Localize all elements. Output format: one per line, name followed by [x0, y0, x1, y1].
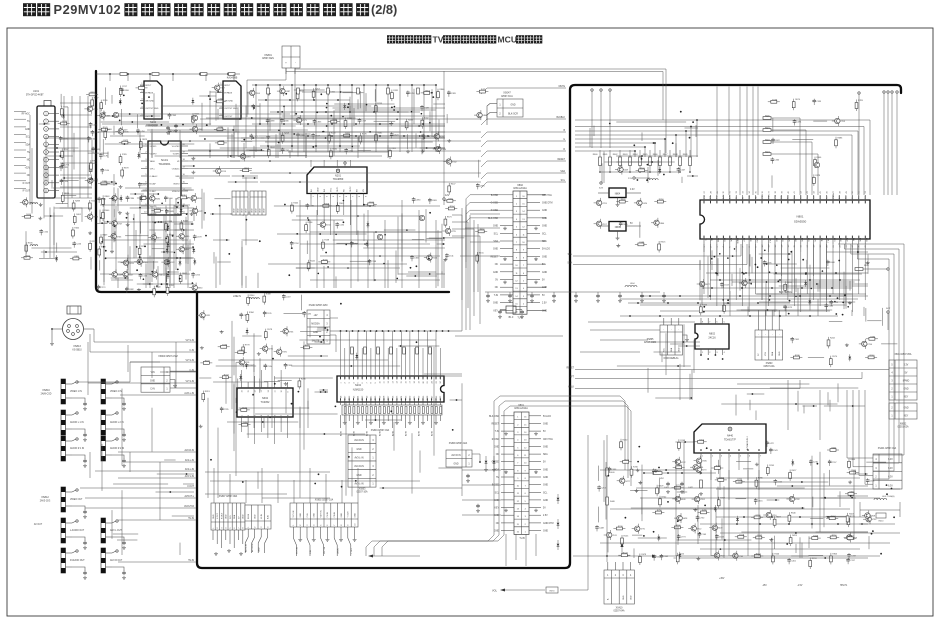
transistor	[693, 465, 698, 470]
wire	[264, 381, 280, 383]
wire	[50, 197, 92, 199]
svg-text:L401 TU-B(H): L401 TU-B(H)	[882, 496, 895, 498]
svg-text:GND DTM: GND DTM	[542, 203, 553, 205]
wire RESET long	[575, 369, 889, 371]
wire	[336, 242, 357, 244]
svg-text:SCL: SCL	[561, 180, 566, 182]
resistor	[689, 157, 692, 166]
wire	[115, 206, 117, 276]
wire	[773, 310, 775, 316]
wire	[44, 137, 91, 139]
wire	[350, 260, 370, 262]
wire AV2-L-IN	[125, 461, 196, 463]
wire	[259, 358, 261, 390]
resistor	[424, 92, 430, 95]
wire	[159, 462, 161, 520]
capacitor	[139, 182, 141, 184]
wire	[683, 442, 685, 494]
wire	[60, 162, 92, 164]
wire	[233, 382, 235, 451]
wire	[47, 155, 73, 157]
transistor V202	[419, 215, 424, 220]
svg-text:VI/Y1-IN: VI/Y1-IN	[185, 381, 194, 383]
wire	[60, 207, 83, 209]
resistor	[336, 205, 339, 211]
wire	[415, 133, 417, 148]
diode	[62, 115, 65, 117]
wire	[277, 144, 279, 158]
wire MCU pin down	[716, 244, 718, 276]
svg-text:V1/Y-IN: V1/Y-IN	[297, 547, 299, 554]
resistor row bottom rail	[600, 171, 680, 173]
transistor	[179, 234, 184, 239]
svg-text:VI-OSS: VI-OSS	[150, 214, 157, 216]
capacitor	[60, 179, 62, 181]
svg-text:GND: GND	[494, 515, 499, 517]
wire	[747, 306, 749, 316]
svg-text:GND: GND	[542, 256, 547, 258]
section boundary bold line MCU AV block	[197, 85, 901, 568]
wire	[810, 518, 823, 520]
wire	[851, 310, 853, 316]
wire loop	[865, 390, 873, 484]
transistor	[296, 117, 301, 122]
wire MCU top pin	[739, 87, 741, 196]
wire MCU top pin	[752, 87, 754, 196]
resistor	[246, 314, 249, 320]
wire	[792, 138, 813, 140]
wire	[649, 341, 700, 343]
wire	[209, 143, 211, 158]
capacitor	[609, 467, 611, 469]
wire	[235, 362, 237, 403]
wire bus loop right	[845, 244, 900, 463]
wire	[151, 129, 153, 158]
wire	[54, 207, 92, 209]
ground	[126, 223, 130, 226]
wire	[229, 474, 231, 503]
wire MCU top pin	[746, 87, 748, 196]
wire	[335, 276, 337, 288]
svg-text:2.5V: 2.5V	[628, 178, 633, 180]
wire corner	[452, 229, 474, 316]
svg-text:AV2-L-IN: AV2-L-IN	[185, 468, 194, 471]
resistor	[827, 340, 830, 346]
svg-text:HBLK: HBLK	[568, 387, 574, 389]
wire	[156, 257, 193, 259]
wire	[477, 224, 479, 292]
wire	[309, 220, 311, 268]
svg-text:GND: GND	[542, 218, 547, 220]
diode	[140, 197, 143, 199]
wire	[470, 213, 500, 215]
wire	[358, 150, 371, 152]
wire pin	[719, 458, 721, 490]
more dots	[326, 103, 328, 105]
wire	[139, 235, 149, 237]
wire	[797, 391, 799, 412]
wire	[867, 254, 869, 273]
wire top long run B	[286, 72, 663, 121]
wire	[691, 370, 693, 400]
wire	[636, 487, 805, 489]
svg-text:2AV3-CK3: 2AV3-CK3	[40, 499, 51, 502]
wire	[129, 246, 131, 274]
transistor	[100, 113, 105, 118]
wire AUX-L-IN	[120, 394, 196, 396]
wire	[127, 74, 129, 81]
wire	[406, 275, 437, 277]
svg-text:SCL: SCL	[543, 492, 548, 494]
wire	[179, 543, 181, 555]
svg-text:AV2-V-IN: AV2-V-IN	[185, 475, 195, 478]
diode	[557, 544, 560, 546]
svg-text:GND: GND	[256, 208, 258, 213]
wire MCU pin down	[819, 244, 821, 288]
wire	[756, 293, 852, 295]
svg-text:B1.0: B1.0	[509, 317, 514, 319]
capacitor	[766, 441, 768, 443]
svg-text:24C16: 24C16	[708, 337, 716, 340]
resistor	[89, 93, 95, 96]
wire	[153, 222, 155, 259]
transistor	[283, 329, 288, 334]
wire	[99, 260, 101, 270]
wire	[333, 220, 335, 288]
ground	[200, 346, 204, 349]
inductor L401 network	[874, 498, 887, 500]
resistor	[217, 100, 223, 103]
capacitor	[90, 177, 92, 179]
wire	[729, 244, 731, 294]
wire right bus vertical	[461, 208, 463, 331]
wire	[795, 544, 797, 553]
wire	[213, 252, 215, 263]
RCA jack AUX R OUT	[101, 548, 106, 573]
wire BLKBLK	[481, 119, 566, 125]
wire	[60, 186, 92, 188]
wire	[819, 244, 821, 306]
wire	[152, 248, 165, 250]
svg-text:INPUT: INPUT	[145, 85, 152, 87]
wire	[111, 279, 133, 281]
wire	[172, 74, 174, 81]
wire	[288, 355, 328, 357]
top rail dots	[109, 73, 111, 75]
wire	[839, 491, 841, 507]
svg-text:AV-IN: AV-IN	[352, 430, 355, 436]
svg-text:GND: GND	[357, 449, 362, 451]
capacitor	[813, 99, 815, 101]
svg-text:GND: GND	[542, 226, 547, 228]
RCA jack AUDIO L 2 IN	[101, 410, 106, 435]
wire	[299, 200, 301, 288]
resistor	[447, 199, 453, 202]
svg-text:VI-OIF1: VI-OIF1	[150, 146, 158, 148]
wire	[53, 187, 92, 189]
resistor	[629, 157, 632, 166]
wire	[121, 389, 123, 466]
ground	[696, 557, 700, 560]
wire MCU pin down	[793, 244, 795, 300]
wire	[207, 398, 209, 498]
wire	[768, 244, 770, 306]
capacitor	[246, 363, 248, 365]
resistor	[241, 409, 247, 412]
wire	[255, 413, 338, 415]
resistor	[387, 88, 390, 94]
wire	[166, 271, 179, 273]
resistor	[139, 87, 145, 90]
wire	[227, 421, 298, 423]
wire	[294, 89, 325, 91]
wire	[161, 105, 371, 107]
wire	[826, 515, 848, 517]
RCA jack VIDEO 1 IN	[61, 379, 66, 404]
capacitor	[825, 303, 827, 305]
wire	[597, 507, 599, 523]
wire	[866, 461, 886, 463]
ground	[848, 481, 852, 484]
section heading mainboard TV audio MCU circuit	[387, 35, 395, 43]
wire	[252, 123, 390, 125]
ground	[220, 330, 224, 333]
wire	[817, 283, 819, 292]
wire	[241, 137, 445, 139]
capacitor	[90, 122, 92, 124]
transistor	[654, 220, 659, 225]
ground	[693, 508, 697, 511]
wire	[173, 205, 175, 288]
svg-text:5V-LDO: 5V-LDO	[543, 416, 551, 418]
wire	[241, 239, 258, 241]
svg-text:Y OUT: Y OUT	[348, 511, 350, 518]
resistor	[830, 556, 833, 562]
svg-text:02507-04A: 02507-04A	[763, 365, 775, 368]
wire	[61, 195, 76, 197]
svg-text:NJM1150: NJM1150	[353, 389, 364, 392]
resistor	[809, 561, 812, 567]
wire	[91, 140, 93, 172]
EEPROM N802 24C16	[695, 318, 729, 360]
wire MCU pin down	[722, 244, 724, 288]
wire bus horizontal	[575, 142, 655, 144]
svg-text:5TH-DFCD-4KBT: 5TH-DFCD-4KBT	[26, 95, 44, 97]
diode	[355, 355, 358, 357]
capacitor	[312, 133, 314, 135]
svg-text:GND: GND	[779, 351, 781, 356]
svg-text:GND: GND	[630, 595, 632, 600]
wire	[357, 468, 359, 503]
svg-text:GND: GND	[264, 208, 266, 213]
wire	[373, 555, 420, 557]
resistor	[793, 356, 799, 359]
wire	[616, 155, 698, 157]
svg-text:XS804 02507-03A: XS804 02507-03A	[371, 429, 390, 432]
wire	[317, 199, 319, 216]
svg-text:PSEN: PSEN	[736, 238, 738, 244]
resistor	[263, 296, 266, 302]
wire R	[481, 151, 566, 157]
transistor	[835, 118, 840, 123]
wire	[37, 197, 52, 199]
wire	[601, 163, 603, 183]
transistor	[866, 517, 871, 522]
wire	[780, 244, 782, 294]
wire	[845, 286, 847, 309]
svg-text:XS810: XS810	[42, 389, 50, 392]
wire	[737, 309, 778, 311]
wire	[253, 146, 255, 158]
svg-text:SDA: SDA	[543, 453, 548, 456]
resistor	[812, 537, 818, 540]
wire	[175, 342, 177, 388]
section boundary bold line video block	[96, 71, 449, 292]
capacitor	[166, 209, 168, 211]
wire	[380, 487, 462, 489]
wire	[658, 479, 660, 494]
resistor	[72, 203, 75, 209]
wire	[152, 221, 167, 223]
wire	[102, 139, 104, 155]
wire	[277, 474, 279, 503]
wire	[505, 534, 507, 566]
wire	[60, 138, 92, 140]
wire	[309, 319, 311, 338]
diode	[343, 105, 346, 107]
wire	[747, 470, 749, 556]
svg-text:GND: GND	[454, 463, 459, 465]
resistor	[24, 256, 30, 259]
svg-text:GND: GND	[260, 208, 262, 213]
connector X801 ladder lower	[489, 404, 554, 540]
wire	[685, 127, 699, 129]
wire	[588, 321, 695, 323]
VOL output run	[560, 435, 588, 590]
wire	[203, 193, 205, 221]
N201 pin stubs top	[310, 160, 312, 167]
svg-text:GND: GND	[226, 514, 228, 519]
resistor	[701, 511, 707, 514]
svg-text:GND: GND	[242, 208, 244, 213]
capacitor	[126, 196, 128, 198]
wire loop	[859, 390, 873, 476]
wire	[293, 480, 295, 503]
capacitor	[314, 119, 316, 121]
wire	[700, 548, 860, 550]
wire	[339, 85, 341, 152]
capacitor	[60, 136, 62, 138]
rail dots forest	[255, 84, 257, 86]
resistor	[323, 204, 329, 207]
svg-text:WR: WR	[820, 238, 822, 242]
svg-text:AV2-R-IN: AV2-R-IN	[185, 449, 195, 452]
wire MCU pin down	[729, 244, 731, 300]
wire bottom loop	[374, 401, 628, 556]
wire	[425, 147, 445, 149]
resistor	[222, 376, 228, 379]
capacitor	[653, 469, 655, 471]
svg-text:GND: GND	[494, 446, 499, 448]
wire	[217, 109, 219, 120]
svg-text:SDA: SDA	[670, 347, 673, 352]
forest bottom rail	[288, 151, 388, 153]
wire top supply rail	[96, 73, 240, 75]
capacitor	[598, 485, 600, 487]
resistor	[91, 100, 94, 106]
wire	[320, 255, 440, 257]
wire	[263, 416, 265, 428]
resistor	[788, 515, 791, 521]
svg-text:C-IN: C-IN	[310, 549, 312, 554]
wire terminal drop	[858, 92, 860, 94]
svg-text:GND: GND	[258, 547, 260, 552]
wire	[215, 257, 217, 288]
wire	[600, 542, 890, 544]
inductor L804	[625, 286, 637, 288]
wire	[278, 380, 292, 382]
resistor	[303, 346, 309, 349]
RCA jack AUX L OUT	[101, 518, 106, 543]
wire	[674, 557, 869, 559]
wire	[56, 243, 58, 253]
wire MCU pin down	[755, 244, 757, 288]
resistor	[763, 153, 771, 156]
wire MCU pin down	[761, 244, 763, 300]
svg-text:AV-IN: AV-IN	[404, 430, 407, 436]
wire	[605, 161, 675, 163]
capacitor	[40, 229, 42, 231]
resistor	[771, 100, 777, 103]
resistor	[267, 150, 270, 156]
svg-text:XS809 02507-02A: XS809 02507-02A	[449, 442, 468, 445]
connector XS801 top	[262, 46, 300, 74]
wire	[243, 143, 245, 158]
wire	[446, 114, 448, 123]
wire	[315, 341, 326, 343]
wire	[302, 91, 353, 93]
wire	[87, 342, 89, 395]
transistor	[88, 214, 93, 219]
wire	[274, 377, 333, 379]
wire	[580, 351, 640, 353]
wire	[100, 115, 160, 117]
wire	[827, 392, 829, 405]
resistor	[773, 519, 776, 525]
wire	[343, 199, 345, 216]
transistor	[192, 285, 197, 290]
wire	[630, 490, 647, 492]
svg-text:AV-IN: AV-IN	[339, 430, 342, 436]
connector XS802 AV header	[290, 499, 358, 557]
capacitor	[368, 259, 370, 261]
svg-text:OUT2: OUT2	[350, 186, 352, 192]
wire	[413, 89, 415, 125]
wire	[749, 400, 751, 410]
svg-text:LINE IN: LINE IN	[233, 296, 241, 298]
wire	[130, 207, 194, 209]
wire	[257, 472, 259, 489]
resistor	[717, 500, 720, 506]
wire bus loop right	[851, 244, 894, 471]
wire	[277, 233, 367, 235]
resistor	[181, 196, 187, 199]
svg-text:GND: GND	[493, 272, 498, 274]
wire	[800, 244, 802, 312]
ground	[421, 150, 425, 153]
svg-text:5V: 5V	[542, 295, 545, 297]
resistor	[656, 488, 659, 494]
